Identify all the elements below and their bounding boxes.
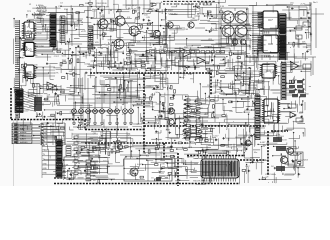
svg-text:No.1: No.1 <box>313 2 318 4</box>
svg-text:0.047: 0.047 <box>260 142 266 144</box>
svg-text:4.7K: 4.7K <box>97 98 102 100</box>
svg-text:0.047: 0.047 <box>264 160 270 162</box>
svg-text:4.7K: 4.7K <box>76 163 81 165</box>
svg-text:4.7K: 4.7K <box>81 31 86 33</box>
svg-text:GND: GND <box>43 173 48 175</box>
svg-text:C117: C117 <box>213 135 219 137</box>
svg-text:C117: C117 <box>75 25 81 27</box>
svg-text:+12V: +12V <box>300 4 306 6</box>
svg-text:8 8 8: 8 8 8 <box>264 56 270 59</box>
svg-text:4.7K: 4.7K <box>70 94 75 96</box>
svg-text:3.3K: 3.3K <box>188 74 193 76</box>
svg-text:C117: C117 <box>54 56 60 58</box>
svg-text:4.5MHz: 4.5MHz <box>36 5 44 7</box>
svg-text:Q3: Q3 <box>27 48 31 52</box>
svg-text:C88 R91: C88 R91 <box>205 139 214 141</box>
svg-text:22K: 22K <box>229 111 233 113</box>
svg-text:CVBS: CVBS <box>22 125 28 127</box>
svg-text:10u: 10u <box>18 112 21 114</box>
svg-text:4.7K: 4.7K <box>210 29 215 31</box>
svg-text:D21 D22: D21 D22 <box>203 5 212 7</box>
svg-text:3.3K: 3.3K <box>220 6 225 8</box>
svg-text:0.047: 0.047 <box>137 164 143 166</box>
svg-text:Q1: Q1 <box>27 29 31 33</box>
svg-text:4.7K: 4.7K <box>282 41 287 43</box>
svg-text:0.047: 0.047 <box>45 101 51 103</box>
svg-text:2SC1308K: 2SC1308K <box>196 184 206 186</box>
svg-text:10u: 10u <box>245 21 248 23</box>
svg-text:GND: GND <box>43 168 48 170</box>
svg-text:4.7K: 4.7K <box>122 114 127 116</box>
svg-text:MC1358: MC1358 <box>36 46 44 48</box>
svg-text:10u: 10u <box>237 75 240 77</box>
svg-text:4.7K: 4.7K <box>25 40 30 42</box>
svg-text:0.047: 0.047 <box>96 7 102 9</box>
svg-text:0.047: 0.047 <box>72 172 78 174</box>
svg-text:0.047: 0.047 <box>253 24 259 26</box>
svg-text:3.3K: 3.3K <box>146 103 151 105</box>
svg-text:0.047: 0.047 <box>84 64 90 66</box>
svg-text:8 8 8: 8 8 8 <box>264 32 270 35</box>
svg-text:3.3K: 3.3K <box>42 29 47 31</box>
svg-text:C117: C117 <box>241 150 247 152</box>
svg-text:R101 2.2K: R101 2.2K <box>36 8 47 10</box>
svg-text:IC7: IC7 <box>268 18 273 22</box>
svg-text:GND: GND <box>43 163 48 165</box>
svg-text:IC8: IC8 <box>268 42 273 46</box>
svg-text:RGB: RGB <box>22 132 27 134</box>
svg-text:3.3K: 3.3K <box>64 164 69 166</box>
svg-text:4.7K: 4.7K <box>276 135 281 137</box>
svg-text:3.3K: 3.3K <box>160 163 165 165</box>
svg-text:R203: R203 <box>95 156 101 158</box>
svg-text:C201 R209: C201 R209 <box>96 3 107 5</box>
svg-text:0.047: 0.047 <box>164 26 170 28</box>
svg-text:IC102: IC102 <box>36 33 42 35</box>
svg-text:0.047: 0.047 <box>48 142 54 144</box>
svg-text:R505 1K: R505 1K <box>279 140 287 142</box>
svg-text:4.7K: 4.7K <box>54 72 59 74</box>
svg-text:3.3K: 3.3K <box>157 115 162 117</box>
svg-text:CVBS: CVBS <box>22 142 28 144</box>
svg-text:10u: 10u <box>89 6 92 8</box>
svg-text:0.047: 0.047 <box>24 110 30 112</box>
